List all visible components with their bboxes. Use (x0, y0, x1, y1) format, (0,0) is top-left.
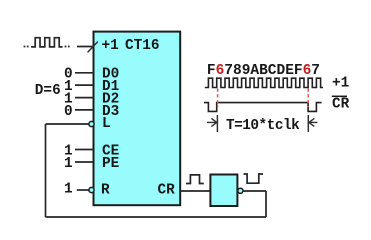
svg-text:CT16: CT16 (125, 38, 160, 54)
wire clock to +1 pin (77, 46, 94, 48)
svg-text:L: L (102, 116, 111, 132)
svg-text:1: 1 (64, 182, 73, 198)
wire R stub (77, 189, 89, 191)
svg-text:0: 0 (64, 104, 73, 120)
inverting bubble on U2 output (238, 188, 243, 193)
dimension arrow right (309, 118, 318, 126)
marker red dashed line left (217, 89, 219, 108)
wire L feedback horizontal (46, 123, 89, 125)
svg-text:CR: CR (158, 183, 176, 199)
counter CT16 U1 body (94, 32, 181, 206)
inverter U2 body (210, 175, 237, 207)
inverting bubble on L (89, 121, 94, 126)
dimension arrow left (207, 118, 217, 126)
positive pulse symbol at CR (186, 175, 204, 184)
wire inverter output to feedback (243, 190, 266, 192)
wire D0 stub (75, 72, 94, 74)
svg-text:7: 7 (311, 63, 320, 79)
wire feedback bottom (46, 216, 267, 218)
clock source waveform symbol (31, 38, 62, 47)
wire D2 stub (75, 97, 94, 99)
svg-text:6: 6 (303, 63, 312, 79)
svg-text:6: 6 (216, 63, 225, 79)
dynamic input slash on +1 (88, 42, 98, 53)
wire PE stub (75, 161, 94, 163)
wire L feedback vertical (45, 124, 47, 217)
wire CE stub (75, 149, 94, 151)
svg-text:PE: PE (102, 156, 120, 172)
marker red dashed line right (307, 89, 309, 108)
svg-text:+1: +1 (332, 76, 350, 92)
wire D1 stub (75, 84, 94, 86)
svg-text:789ABCDEF: 789ABCDEF (224, 63, 302, 79)
clock source symbol dots right (65, 46, 70, 48)
svg-text:1: 1 (64, 156, 73, 172)
svg-text:R: R (101, 183, 110, 199)
dimension bar right (307, 115, 309, 132)
svg-text:F: F (207, 63, 216, 79)
wire D3 stub (75, 109, 94, 111)
svg-text:+1: +1 (102, 38, 120, 54)
overline on CR label (332, 95, 347, 97)
svg-text:T=10*tclk: T=10*tclk (226, 118, 300, 134)
waveform clock +1 (205, 78, 323, 87)
dimension bar left (216, 115, 218, 132)
negative pulse symbol at inverter output (244, 174, 264, 183)
clock source symbol dots left (24, 46, 29, 48)
wire CR to inverter (180, 190, 210, 192)
inverting bubble on R (89, 187, 94, 192)
wire feedback right vertical (265, 191, 267, 217)
svg-text:CR: CR (332, 97, 350, 113)
waveform CR (204, 103, 322, 112)
svg-text:D=6: D=6 (35, 83, 61, 99)
